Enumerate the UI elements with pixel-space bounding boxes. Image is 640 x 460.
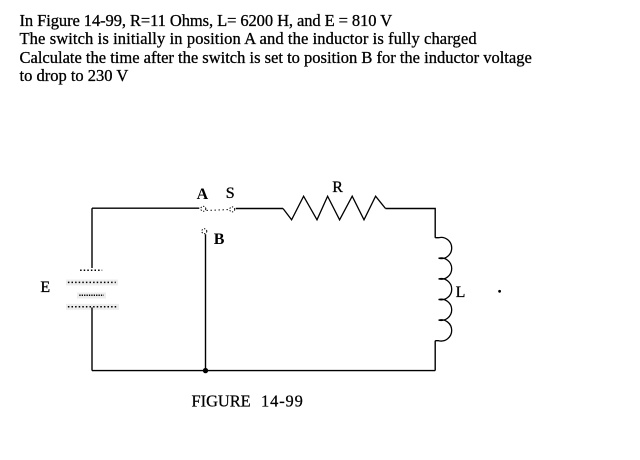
- wire: resistor R to top-right corner, down to inductor top: [386, 209, 436, 238]
- svg-text:A: A: [197, 186, 209, 203]
- wire: bottom horizontal: [92, 370, 435, 372]
- wire: inductor bottom to bottom-right corner: [434, 341, 436, 371]
- battery E (dotted plates): [66, 270, 119, 310]
- svg-text:S: S: [226, 185, 235, 202]
- wire: battery bottom to bottom-left corner: [91, 307, 93, 370]
- wire: switch right contact to resistor R: [236, 208, 283, 210]
- switch S contact B (small dotted circle): [202, 229, 207, 234]
- svg-text:R: R: [332, 179, 343, 196]
- stray period mark right of inductor: [498, 290, 501, 293]
- svg-text:L: L: [456, 284, 466, 301]
- wire: switch contact B down to bottom wire: [205, 234, 207, 370]
- wire: top horizontal from top-left corner to switch contact A: [92, 207, 199, 209]
- svg-text:14-99: 14-99: [261, 391, 304, 410]
- resistor R (zigzag): [283, 196, 386, 220]
- switch S blade (dotted line from contact A to contact S): [207, 209, 229, 212]
- junction dot (node where B wire meets bottom wire): [203, 368, 208, 373]
- svg-text:B: B: [214, 231, 225, 248]
- svg-text:E: E: [40, 279, 50, 296]
- switch S contact A (small dotted circle): [201, 206, 206, 211]
- switch S right contact (small dotted circle): [230, 207, 235, 212]
- wire: left vertical from top-left corner down to battery: [91, 208, 93, 268]
- inductor L (5 coil arcs): [435, 237, 452, 341]
- svg-text:FIGURE: FIGURE: [192, 391, 251, 410]
